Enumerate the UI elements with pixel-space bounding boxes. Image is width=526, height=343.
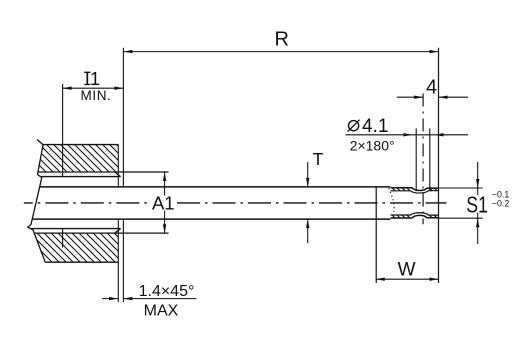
crimped tip top band inner line (391, 191, 439, 193)
dimension 4 tails (397, 96, 468, 98)
weld chamfer bottom (115, 229, 121, 234)
dia 4.1 arrow left (pointing right) (404, 133, 413, 136)
W arrow left (376, 278, 385, 281)
hole right edge line (429, 128, 431, 191)
svg-text:S1: S1 (466, 192, 488, 218)
svg-text:T: T (313, 149, 324, 169)
crimped tip top band hatch ticks (392, 188, 437, 191)
centre line (dash-dot axis) (24, 202, 150, 204)
svg-text:R: R (274, 29, 288, 51)
svg-text:2×180°: 2×180° (350, 137, 395, 153)
diameter symbol (348, 120, 360, 132)
svg-text:MAX: MAX (144, 302, 179, 319)
hole centre line vertical (422, 94, 424, 225)
dimension I1 line (63, 87, 124, 89)
hidden transition dotted curve (389, 188, 394, 216)
outer tube top edge (40, 176, 120, 178)
hatched wall lower block (34, 233, 118, 262)
probe shaft top line (39, 186, 390, 188)
dia 4.1 arrow right (pointing left) (435, 133, 444, 136)
A1 text mask (150, 196, 177, 211)
probe shaft bottom line (32, 218, 390, 220)
outer tube bottom edge (31, 228, 121, 230)
svg-text:A1: A1 (152, 193, 175, 214)
dimension S1 line (477, 162, 479, 244)
svg-text:4.1: 4.1 (362, 116, 388, 137)
tip end face (438, 48, 440, 283)
wall hole edge bottom (A1 lower extension) (34, 232, 168, 234)
weld end / R-I1 extension line (122, 48, 124, 302)
S1 arrow top (pointing down) (476, 179, 479, 188)
I1 arrow right (114, 87, 123, 90)
dimension W line (376, 278, 439, 280)
centre line right part (177, 202, 447, 204)
break line (left broken-out edge) (28, 140, 46, 263)
chamfer arrow right (pointing left) (123, 297, 132, 300)
W arrow right (430, 278, 439, 281)
svg-text:1.4×45°: 1.4×45° (139, 283, 195, 300)
T arrow bottom (pointing up) (306, 219, 309, 228)
svg-text:4: 4 (426, 77, 437, 99)
weld chamfer top (115, 172, 121, 177)
shoulder line / W left extension (375, 187, 377, 283)
dimension T line (307, 162, 309, 243)
crimped tip bottom band inner line (391, 213, 439, 215)
4 arrow left (pointing right) (414, 96, 423, 99)
wall hole edge top (A1 upper extension) (38, 171, 169, 173)
I1 arrow left (63, 87, 72, 90)
svg-text:W: W (398, 260, 416, 281)
S1 extension line bottom (439, 217, 483, 219)
diameter 4.1 leader line (345, 134, 468, 136)
S1 extension line top (439, 187, 483, 189)
wall right face line (117, 145, 119, 302)
dimension A1 line (164, 172, 166, 233)
4 arrow right (pointing left) (439, 96, 448, 99)
dimension R line (123, 51, 438, 53)
tube end face / I1 left extension line (62, 84, 64, 248)
R arrow right (430, 50, 439, 53)
A1 arrow up (163, 172, 166, 181)
hole left edge line (415, 128, 417, 191)
R arrow left (123, 50, 132, 53)
S1 arrow bottom (pointing up) (476, 218, 479, 227)
crimped tip top band outer line (391, 188, 439, 191)
svg-text:MIN.: MIN. (81, 88, 112, 103)
svg-text:I1: I1 (85, 68, 100, 89)
T arrow top (pointing down) (306, 178, 309, 187)
chamfer arrow left (pointing right) (109, 297, 118, 300)
svg-text:−0.2: −0.2 (492, 199, 509, 209)
chamfer dimension lines (102, 298, 196, 300)
crimped tip bottom band outer line (391, 215, 439, 218)
crimped tip bottom band hatch ticks (392, 215, 437, 218)
A1 arrow down (163, 224, 166, 233)
hatched wall upper block (38, 145, 118, 172)
